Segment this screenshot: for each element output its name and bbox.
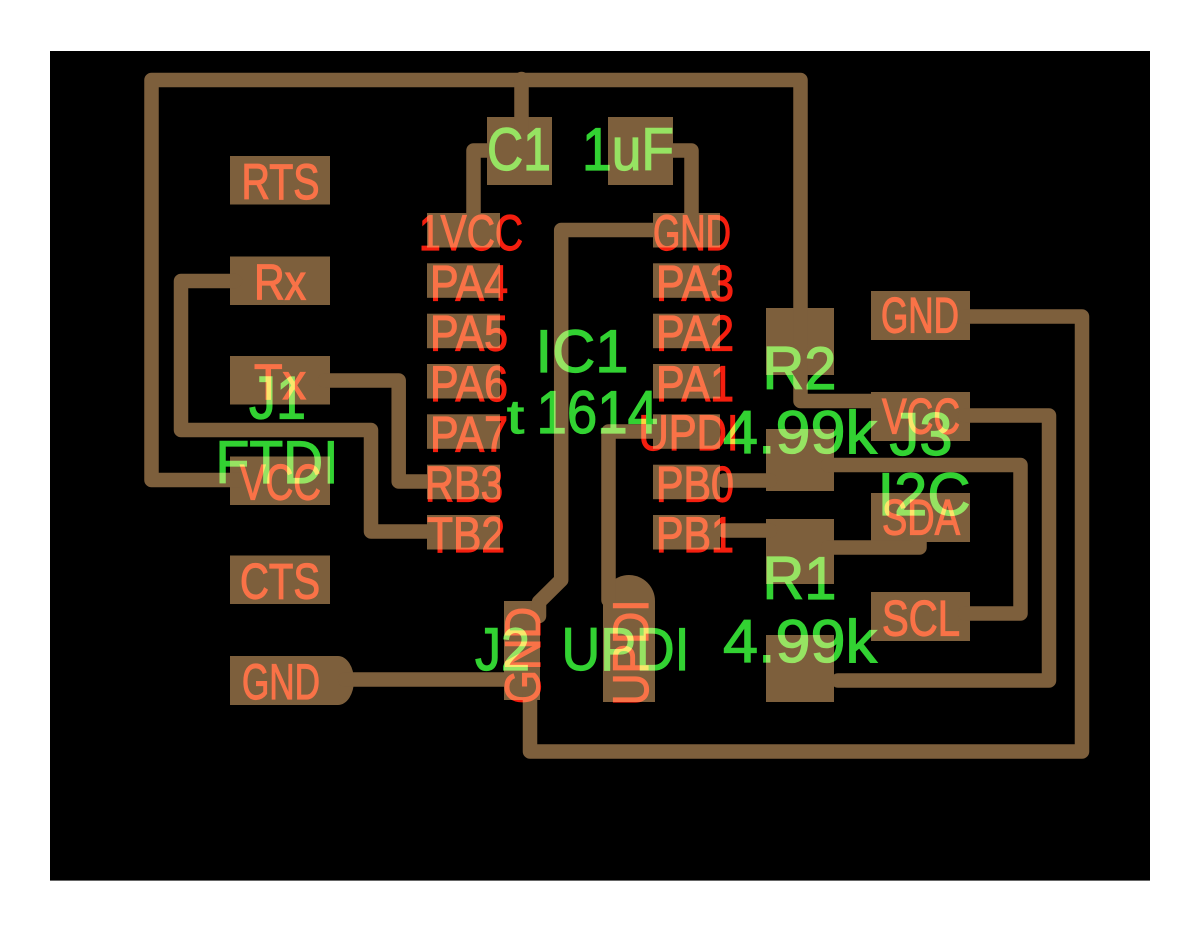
svg-text:SCL: SCL — [882, 591, 960, 647]
svg-text:TB2: TB2 — [427, 507, 505, 563]
svg-text:PA4: PA4 — [430, 255, 508, 311]
svg-text:CTS: CTS — [240, 554, 320, 610]
svg-text:FTDI: FTDI — [216, 429, 339, 496]
svg-text:4.99k: 4.99k — [723, 399, 878, 466]
svg-text:PA2: PA2 — [656, 306, 734, 362]
svg-text:4.99k: 4.99k — [723, 608, 878, 675]
svg-text:R1: R1 — [763, 545, 837, 612]
svg-text:Rx: Rx — [254, 255, 306, 311]
svg-text:C1: C1 — [487, 116, 551, 183]
svg-text:PA6: PA6 — [430, 356, 508, 412]
svg-text:1614: 1614 — [537, 379, 659, 446]
svg-text:PA7: PA7 — [430, 406, 508, 462]
svg-text:1VCC: 1VCC — [419, 205, 523, 261]
svg-text:t: t — [507, 390, 524, 443]
svg-text:GND: GND — [653, 205, 731, 261]
svg-text:RTS: RTS — [242, 154, 320, 210]
svg-text:PA3: PA3 — [656, 255, 734, 311]
svg-text:PB1: PB1 — [656, 507, 734, 563]
svg-text:GND: GND — [881, 288, 959, 344]
svg-text:GND: GND — [242, 654, 320, 710]
svg-text:IC1: IC1 — [536, 318, 629, 385]
svg-text:UPDI: UPDI — [562, 616, 690, 683]
svg-text:J3: J3 — [890, 401, 953, 468]
svg-text:J1: J1 — [249, 365, 306, 432]
svg-text:PA5: PA5 — [430, 306, 508, 362]
svg-text:J2: J2 — [475, 616, 530, 683]
svg-text:R2: R2 — [763, 335, 837, 402]
svg-text:1uF: 1uF — [582, 116, 674, 183]
svg-text:I2C: I2C — [878, 461, 971, 528]
svg-text:RB3: RB3 — [425, 457, 503, 513]
